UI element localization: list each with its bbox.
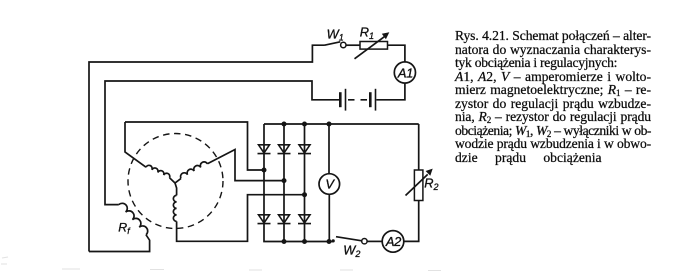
svg-text:A1: A1 bbox=[397, 65, 413, 80]
svg-text:Rf: Rf bbox=[118, 220, 131, 235]
svg-text:R1: R1 bbox=[360, 25, 374, 41]
svg-text:V: V bbox=[325, 177, 335, 192]
svg-text:R2: R2 bbox=[424, 176, 438, 192]
svg-text:W1: W1 bbox=[327, 26, 344, 42]
svg-text:A2: A2 bbox=[385, 234, 401, 249]
svg-text:W2: W2 bbox=[343, 242, 360, 259]
